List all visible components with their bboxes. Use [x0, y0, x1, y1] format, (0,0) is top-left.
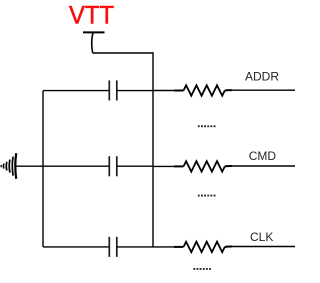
net label CLK [250, 230, 273, 244]
wire C2 to bus [117, 165, 153, 167]
ellipsis dots under R3 [193, 268, 211, 270]
resistor R2 (CMD branch) [174, 161, 232, 171]
capacitor C3 (CLK branch) [109, 237, 117, 257]
wire bus to resistor R3 [153, 246, 174, 248]
wire bus to resistor R1 [153, 90, 174, 92]
wire C1 to bus [117, 90, 153, 92]
ground (earth) symbol [1, 153, 16, 179]
svg-text:ADDR: ADDR [245, 70, 279, 84]
wire R1 to ADDR label line [230, 89, 295, 91]
resistor R1 (ADDR branch) [174, 85, 232, 95]
svg-text:VTT: VTT [69, 2, 114, 30]
ellipsis dots under R1 [198, 125, 216, 127]
power symbol VTT (bar and stem) [83, 32, 105, 53]
wire left vertical line [42, 91, 44, 247]
wire ground to left line and capacitor C2 (CMD branch) [16, 165, 109, 167]
svg-text:CLK: CLK [250, 230, 273, 244]
wire branch ADDR: left line to capacitor C1 [43, 90, 109, 92]
capacitor C2 (CMD branch) [109, 156, 117, 176]
net label CMD [249, 149, 277, 163]
wire branch CLK: left line corner to capacitor C3 [43, 246, 109, 248]
svg-text:CMD: CMD [249, 149, 277, 163]
wire from VTT power to bus (horizontal) [93, 52, 153, 54]
capacitor C1 (ADDR branch) [109, 80, 117, 100]
wire R2 to CMD label line [230, 165, 295, 167]
net label ADDR [245, 70, 279, 84]
wire C3 to bus [117, 246, 153, 248]
net VTT label [69, 2, 114, 30]
wire bus to resistor R2 [153, 165, 174, 167]
wire R3 to CLK label line [230, 246, 295, 248]
wire vertical bus [152, 52, 154, 247]
ellipsis dots under R2 [198, 195, 216, 197]
resistor R3 (CLK branch) [174, 242, 232, 252]
